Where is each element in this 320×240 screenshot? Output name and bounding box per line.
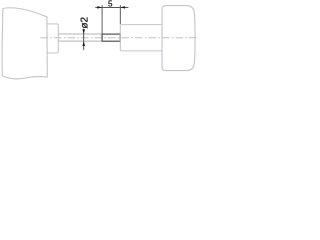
dimension 5: left arrowhead (97, 6, 102, 8)
dimension 5: dimension line (95, 6, 128, 8)
knob grip bottom edge (120, 50, 162, 52)
knob head outline (162, 6, 195, 71)
dimension ø2: top arrowhead (82, 29, 85, 34)
door panel (broken-out section) (2, 8, 47, 79)
dimension 5: right arrowhead (120, 6, 125, 8)
svg-text:ø2: ø2 (79, 16, 90, 28)
dimension 5: right extension line (119, 5, 121, 24)
ferrule (dark rectangle, 5 long) (102, 34, 120, 41)
spindle top line (58, 33, 102, 35)
dimension 5: left extension line (101, 5, 103, 33)
rose plate (47, 24, 58, 53)
dimension ø2: dimension line (83, 29, 85, 50)
spindle bottom line (58, 40, 102, 42)
centerline (axis) (41, 37, 198, 39)
knob grip left face (119, 25, 121, 51)
knob grip top edge (120, 24, 162, 26)
svg-text:5: 5 (108, 0, 113, 9)
dimension ø2: bottom arrowhead (82, 41, 85, 46)
